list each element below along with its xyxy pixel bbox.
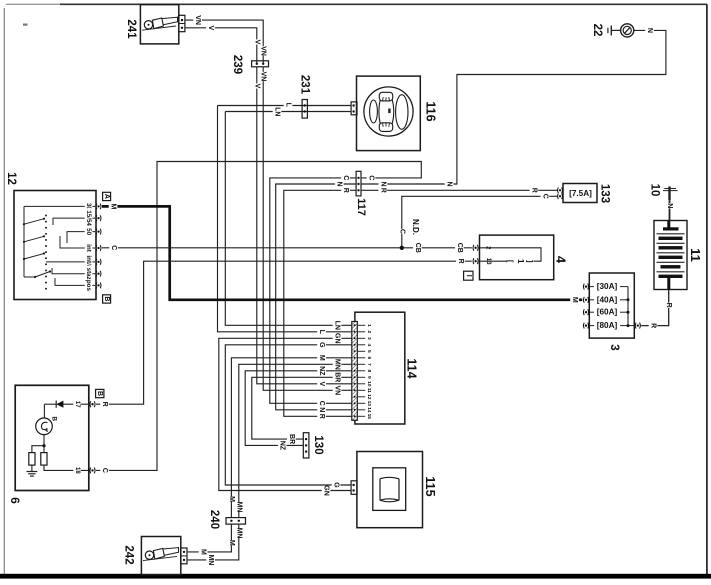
svg-text:117: 117 <box>355 198 367 216</box>
wire C from fuse 133 to junction <box>402 196 558 248</box>
wire VN column above 239 label <box>259 46 268 55</box>
svg-text:C: C <box>342 175 349 180</box>
connector I boxed label <box>464 271 473 280</box>
svg-text:130: 130 <box>312 435 324 454</box>
svg-text:4: 4 <box>554 256 569 264</box>
svg-text:M: M <box>110 203 117 209</box>
component 12 terminal label 15/54 <box>85 208 93 228</box>
wire label C near fuse <box>541 194 550 199</box>
svg-text:9: 9 <box>366 376 372 379</box>
battery 11 plates <box>667 221 670 228</box>
wire BR from 114 pin 9 to 130 <box>252 377 352 439</box>
wire label G near 115 <box>332 482 341 487</box>
svg-text:239: 239 <box>231 55 243 74</box>
svg-text:N: N <box>379 181 386 186</box>
component 6 pin 18 number <box>73 466 80 474</box>
component 242 box (cigar lighter) <box>141 537 180 575</box>
component 114 pin 12 <box>357 396 365 398</box>
component 12 connector pins <box>96 204 101 210</box>
wire L column down to 114 pin 2 <box>218 106 352 332</box>
component 4 pin 2 <box>473 245 478 251</box>
component 114 pin 6 <box>357 357 365 359</box>
wire label R near fuse 133 <box>530 188 539 193</box>
component 12 terminal label int <box>85 242 93 254</box>
wire label M near fuse box 3 <box>570 297 579 302</box>
wire label LN at 114 pin 1 <box>333 321 342 330</box>
component 6 pin 17 connector <box>90 401 95 407</box>
svg-text:MN: MN <box>207 554 214 565</box>
component 114 pin 5 <box>357 350 365 352</box>
wire label C at comp 6 <box>100 468 109 473</box>
svg-text:N: N <box>666 203 673 208</box>
svg-text:GN: GN <box>334 333 341 344</box>
svg-text:pos: pos <box>85 280 92 292</box>
component 12 terminal label staz <box>85 266 93 282</box>
svg-text:116: 116 <box>424 101 438 121</box>
component 114 pin 4 <box>357 344 365 346</box>
bottom black bar <box>0 574 711 579</box>
wire M thick from 12 to fuse box 3 <box>102 206 582 299</box>
component 12 switch arm 4 <box>35 272 50 278</box>
wire MN from 114 pin 7 down to 240 <box>239 364 352 517</box>
svg-text:NZ: NZ <box>318 366 325 376</box>
wire label M horizontal to 242 <box>199 549 208 554</box>
component 114 pin 8 <box>357 370 365 372</box>
component 116 connector pins <box>351 102 357 115</box>
wire label R vertical <box>664 303 673 308</box>
connector B boxed label at comp 6 <box>96 389 104 397</box>
svg-text:8: 8 <box>366 369 372 372</box>
wire R from component 6 pin 17 to component 4 pin 13 <box>96 261 472 404</box>
svg-text:NZ: NZ <box>279 441 286 451</box>
wire label M below 240 <box>227 540 236 545</box>
ground point 22 symbol <box>607 28 609 34</box>
svg-text:11: 11 <box>688 248 703 262</box>
svg-text:N: N <box>318 407 325 412</box>
svg-text:N: N <box>336 181 343 186</box>
component 12 internal 30 bus line <box>24 205 95 207</box>
wire label N near 22 <box>645 28 654 33</box>
component 6 lamp symbol <box>36 418 53 435</box>
component 6 branch to resistor 1 <box>32 446 44 453</box>
svg-text:241: 241 <box>125 19 137 39</box>
component 12 contact link staz <box>52 268 95 274</box>
svg-text:1: 1 <box>366 324 372 327</box>
component 12 contact link int <box>60 236 95 248</box>
wire label BR at pin 9 <box>333 373 342 382</box>
component 6 pin 18 connector <box>90 467 95 473</box>
svg-text:BR: BR <box>334 372 341 382</box>
speck artifact top-left <box>23 24 28 26</box>
svg-text:V: V <box>253 40 260 45</box>
svg-text:3: 3 <box>366 337 372 340</box>
svg-text:VN: VN <box>194 15 201 25</box>
svg-text:4: 4 <box>366 343 372 346</box>
wire label MN horizontal to 242 <box>206 555 215 564</box>
svg-text:18: 18 <box>74 467 80 474</box>
component 114 pin 14 <box>357 409 365 411</box>
fuse box 3 fuse 40A <box>589 299 594 301</box>
component 12 terminal label pos <box>85 279 93 291</box>
wire label N at 114 pin 14 <box>317 407 326 412</box>
svg-text:VN: VN <box>260 46 267 56</box>
component 12 contact link 50 <box>67 232 95 243</box>
svg-text:C: C <box>367 175 374 180</box>
svg-text:LN: LN <box>274 107 281 116</box>
component 12 terminal label 30 <box>85 202 93 210</box>
component 114 pin 10 <box>357 383 365 385</box>
wire C from 12 to junction and CB to component 4 pin 2 <box>102 247 472 249</box>
wire label V <box>206 25 215 30</box>
fuse box 3 left pins <box>583 284 588 290</box>
svg-text:242: 242 <box>123 545 135 564</box>
component 115 box <box>357 452 423 528</box>
component 116 symbol ignition lock face <box>364 87 413 136</box>
svg-text:M: M <box>571 297 578 303</box>
wire R from fuse box 3 to battery 11 <box>641 290 669 326</box>
svg-text:M: M <box>228 540 235 546</box>
component 12 switch arm 3 <box>24 254 44 260</box>
fuse box 3 fuse 60A <box>589 311 594 313</box>
svg-text:G: G <box>333 482 340 488</box>
wire label MN above 240 <box>235 502 244 511</box>
svg-text:CB: CB <box>456 243 463 253</box>
connector 117 strip <box>356 171 361 196</box>
svg-text:L: L <box>318 330 325 335</box>
svg-text:V: V <box>253 84 260 89</box>
wire LN from LN column to 116 through 231 <box>225 111 351 113</box>
component 12 box <box>14 191 96 300</box>
svg-text:VN: VN <box>334 385 341 395</box>
wire C left of 117 down to 114 pin 13 <box>270 178 356 403</box>
wire label C near 12 <box>109 245 118 250</box>
fuse box 3 fuse 80A <box>589 325 594 327</box>
wire label R horizontal <box>649 323 658 328</box>
wire LN column down to 114 pin 1 <box>225 112 351 326</box>
svg-text:MN: MN <box>235 502 242 513</box>
connector 231 <box>302 100 307 119</box>
svg-text:240: 240 <box>208 510 220 529</box>
wire label C right of 117 <box>367 175 376 180</box>
svg-text:R: R <box>650 323 657 328</box>
component 115 connector pins <box>351 481 357 495</box>
wire N left of 117 down to 114 pin 14 <box>276 184 356 410</box>
wire label CB before comp 4 <box>455 243 464 252</box>
component 114 pin 11 <box>357 389 365 391</box>
svg-text:2: 2 <box>366 330 372 333</box>
fuse box 3 internal bus <box>627 287 629 326</box>
connector B boxed label <box>103 295 111 303</box>
component 6 junction dot <box>42 444 45 447</box>
svg-text:50: 50 <box>85 228 92 235</box>
component 6 box <box>15 385 89 490</box>
wire label M above 240 <box>227 496 236 501</box>
svg-text:staz: staz <box>85 268 92 280</box>
svg-text:N.D.: N.D. <box>411 219 420 235</box>
svg-text:114: 114 <box>405 358 419 378</box>
svg-text:R: R <box>342 188 349 193</box>
svg-text:CB: CB <box>414 243 421 253</box>
wire label L <box>284 102 293 107</box>
wire L from L column to 116 through 231 <box>218 105 352 107</box>
component 116 box (ignition switch) <box>357 76 421 151</box>
wire label R right of 117 <box>379 188 388 193</box>
fuse box 3 <box>589 273 634 338</box>
component 6 resistor 2 <box>41 453 47 466</box>
svg-text:12: 12 <box>366 394 372 400</box>
svg-text:C: C <box>318 401 325 406</box>
svg-text:C: C <box>110 245 117 250</box>
svg-text:15: 15 <box>366 414 372 420</box>
component 115 inner box <box>373 468 406 511</box>
svg-text:22: 22 <box>591 24 603 37</box>
svg-text:R: R <box>101 402 108 407</box>
wire label VN at 114 pin 11 <box>333 386 342 395</box>
wire label C left of 117 <box>341 175 350 180</box>
wire label G at pin 4 <box>317 342 326 347</box>
component 242 symbol <box>145 551 153 559</box>
svg-text:C: C <box>398 229 405 234</box>
connector 239 <box>252 61 269 67</box>
wire G from 114 pin 4 to 115 <box>225 345 351 485</box>
component 241 symbol <box>144 21 152 29</box>
wire label R at 114 pin 15 <box>317 414 326 419</box>
component 114 pin 13 <box>357 402 365 404</box>
svg-text:6: 6 <box>366 356 372 359</box>
component 114 pin 2 <box>357 331 365 333</box>
component 6 wire lamp to resistors <box>43 435 45 453</box>
svg-text:12: 12 <box>5 172 17 185</box>
connector 130 strip <box>303 433 309 458</box>
component 12 switch arm 2 <box>24 236 44 242</box>
component 12 contact link 15/54 <box>53 218 95 225</box>
wire GN from 114 pin 3 to 115 <box>219 338 352 490</box>
svg-text:A: A <box>103 194 110 199</box>
svg-text:11: 11 <box>366 388 372 393</box>
wire M from 114 pin 6 down to 240 <box>231 358 351 518</box>
wire label M near 12 <box>109 204 118 209</box>
svg-text:N: N <box>646 28 653 33</box>
fuse 133 pins <box>558 188 563 194</box>
wire label CB after junction <box>413 243 422 252</box>
svg-text:17: 17 <box>74 401 80 408</box>
svg-text:GN: GN <box>323 485 330 496</box>
svg-text:M: M <box>318 355 325 361</box>
wire label C at 114 pin 13 <box>317 401 326 406</box>
wire label GN at pin 3 <box>333 334 342 343</box>
battery terminal 10 symbol <box>668 186 670 200</box>
svg-text:C: C <box>541 194 548 199</box>
svg-text:V: V <box>318 381 325 386</box>
wire N from 22 to 117 right side <box>361 30 666 184</box>
wire C 117 right side loop to component 6 <box>96 162 421 471</box>
wire NZ from 114 pin 8 to 130 <box>245 371 351 446</box>
svg-text:int: int <box>85 244 92 252</box>
wire R from 117 right to fuse 133 <box>361 189 558 191</box>
svg-text:C: C <box>101 468 108 473</box>
wire label MN at pin 7 <box>333 360 342 369</box>
component 241 box (cigar lighter switch) <box>140 5 178 44</box>
fuse box 3 right pin <box>635 323 640 329</box>
svg-text:N: N <box>446 181 453 186</box>
svg-text:R: R <box>665 303 672 308</box>
svg-text:I: I <box>465 275 472 277</box>
component 4 box <box>480 235 554 280</box>
junction node CB/C <box>400 246 404 250</box>
wire label R at comp 6 <box>100 402 109 407</box>
component 241 connector pins <box>179 15 185 31</box>
svg-text:R: R <box>318 414 325 419</box>
component 114 box <box>355 312 405 424</box>
component 12 contact link pos <box>55 278 95 285</box>
component 4 internal wire from pin 2 <box>480 248 542 261</box>
component 4 internal wire from pin 13 <box>480 260 507 262</box>
svg-text:231: 231 <box>299 75 311 95</box>
wire R left of 117 down to 114 pin 15 <box>284 190 356 416</box>
wire label R left of 117 <box>341 188 350 193</box>
svg-text:G: G <box>318 342 325 348</box>
wire label R before comp 4 pin 13 <box>456 259 465 264</box>
svg-text:M: M <box>200 549 207 555</box>
svg-text:R: R <box>379 188 386 193</box>
component 114 pin 3 <box>357 337 365 339</box>
wire label N right of 117 <box>379 181 388 186</box>
svg-text:115: 115 <box>423 476 437 496</box>
wire label M at pin 6 <box>317 355 326 360</box>
component 12 internal left rail <box>23 206 25 277</box>
svg-text:M: M <box>228 496 235 502</box>
svg-text:[40A]: [40A] <box>597 295 618 304</box>
wire V column above 239 label <box>253 39 262 44</box>
wire label GN near 115 <box>322 486 331 495</box>
wire V from 241 to V column <box>185 28 257 64</box>
svg-text:[80A]: [80A] <box>597 321 618 330</box>
wire VN from 241 to VN column <box>185 20 263 64</box>
svg-text:10: 10 <box>366 381 372 387</box>
svg-text:BR: BR <box>288 434 295 444</box>
svg-text:1: 1 <box>516 259 525 264</box>
svg-text:VN: VN <box>260 72 267 82</box>
battery 11 box <box>654 221 687 290</box>
wire label V at 114 pin 10 <box>317 381 326 386</box>
wire label C on vertical <box>398 229 407 234</box>
connector A boxed label <box>103 192 111 200</box>
component 6 diode <box>44 403 56 405</box>
wire label BR near 130 <box>287 434 296 443</box>
svg-text:B: B <box>96 391 103 396</box>
wire label L at 114 pin 2 <box>317 329 326 334</box>
svg-text:MN: MN <box>334 359 341 370</box>
connector 240 <box>226 518 246 525</box>
wire label N near corner <box>445 181 454 186</box>
svg-text:[7.5A]: [7.5A] <box>569 189 592 198</box>
svg-text:R: R <box>457 259 464 264</box>
svg-text:5: 5 <box>366 350 372 353</box>
svg-text:6: 6 <box>8 497 22 504</box>
wire label LN <box>273 107 282 116</box>
component 114 pin 9 <box>357 376 365 378</box>
svg-text:L: L <box>285 103 292 108</box>
wire label N left of 117 <box>335 181 344 186</box>
wire label NZ at pin 8 <box>317 366 326 375</box>
svg-text:10: 10 <box>649 184 661 197</box>
component 12 terminal label 50 <box>85 227 93 235</box>
component 114 pin 15 <box>357 415 365 417</box>
wire M below 240 to 242 <box>188 524 232 552</box>
wire VN column below 239 <box>263 67 351 391</box>
component 6 ground symbol <box>31 465 33 471</box>
svg-text:133: 133 <box>599 184 611 203</box>
component 6 resistor 1 <box>29 453 35 466</box>
svg-text:14: 14 <box>366 407 372 413</box>
fuse box 3 fuse 30A <box>589 286 594 288</box>
wire label MN below 240 <box>235 528 244 537</box>
svg-text:13: 13 <box>366 401 372 407</box>
component 4 pin 13 <box>473 258 478 264</box>
svg-text:R: R <box>530 188 537 193</box>
component 242 connector pins <box>181 548 187 564</box>
svg-text:15/54: 15/54 <box>85 210 92 226</box>
component 12 stationary contact column <box>45 215 47 217</box>
wire label NZ near 130 <box>278 441 287 450</box>
svg-text:V: V <box>207 25 214 30</box>
component 114 pin 7 <box>357 363 365 365</box>
svg-text:MN: MN <box>235 528 242 539</box>
wire N from 10 to battery <box>669 200 671 220</box>
wire V column below 239 <box>257 67 352 384</box>
svg-text:B: B <box>103 296 110 301</box>
component 6 wire resistor 2 to pin 18 <box>44 465 89 470</box>
wire label N below 10 <box>665 203 674 208</box>
component 12 switch arm 1 <box>24 219 44 225</box>
component 12 contact link int/a <box>46 261 95 263</box>
component 114 hatched strip <box>352 322 358 421</box>
wire MN below 240 to 242 <box>188 524 239 560</box>
svg-text:LN: LN <box>334 321 341 330</box>
svg-text:3: 3 <box>608 344 620 350</box>
fuse 133 box <box>563 184 597 203</box>
component 114 pin 1 <box>357 324 365 326</box>
svg-text:7: 7 <box>366 363 372 366</box>
svg-text:B: B <box>50 416 57 421</box>
component 12 terminal label int/a <box>85 252 93 272</box>
svg-text:[30A]: [30A] <box>597 282 618 291</box>
wire label VN <box>193 15 202 24</box>
component 115 cylinder symbol <box>380 479 399 500</box>
svg-text:[60A]: [60A] <box>597 308 618 317</box>
component 6 pin 17 number <box>73 400 80 408</box>
component 6 wire diode to lamp <box>43 404 45 418</box>
